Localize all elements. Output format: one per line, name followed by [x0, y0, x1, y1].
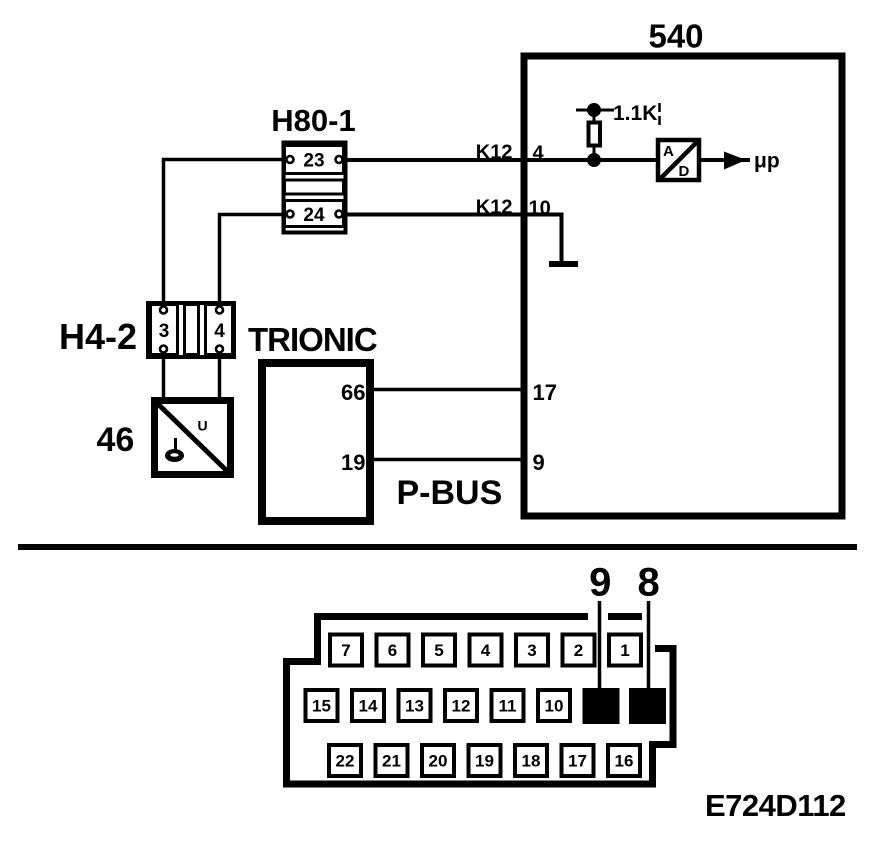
svg-text:K12: K12 [476, 197, 513, 219]
pin 10 [538, 690, 570, 721]
svg-text:H80-1: H80-1 [271, 103, 355, 138]
svg-text:9: 9 [589, 561, 611, 605]
svg-text:10: 10 [529, 198, 551, 220]
pressure sensor 46 box [155, 401, 231, 475]
pin 4 [470, 635, 502, 666]
svg-text:20: 20 [429, 752, 448, 771]
wire: TRIONIC 66 to 540 pin 17 [370, 388, 524, 392]
svg-text:P-BUS: P-BUS [397, 474, 503, 512]
pin 21 [376, 745, 408, 776]
callout digit 9 [589, 561, 611, 605]
svg-text:7: 7 [341, 641, 350, 660]
pin circle H80-1 23 right [336, 156, 343, 163]
pin circle H80-1 24 left [287, 211, 294, 218]
pin 13 [399, 690, 431, 721]
value label 1.1K [613, 102, 660, 125]
pin circle H4-2 4 bottom [216, 346, 223, 353]
svg-text:12: 12 [452, 697, 471, 716]
wire: H80-1 pin24 to 540 pin10 (K12) then down to ground [341, 215, 562, 262]
svg-text:14: 14 [359, 697, 378, 716]
pin 16 [608, 745, 640, 776]
svg-text:16: 16 [615, 752, 634, 771]
section divider line [18, 544, 857, 550]
svg-text:9: 9 [533, 450, 545, 475]
svg-text:D: D [679, 163, 690, 180]
wire: H80-1 pin23 to 540 pin4 (K12) [341, 158, 658, 162]
pin 20 [422, 745, 454, 776]
svg-text:6: 6 [388, 641, 397, 660]
svg-text:18: 18 [522, 752, 541, 771]
wire: H4-2 pin3 up to H80-1 pin23 [164, 160, 288, 306]
label H4-2 [59, 316, 137, 357]
pin 19 [469, 745, 501, 776]
pin 1 [609, 635, 641, 666]
pin 22 [329, 745, 361, 776]
svg-text:2: 2 [574, 641, 583, 660]
svg-text:μp: μp [754, 150, 780, 173]
pin circle H4-2 3 bottom [160, 346, 167, 353]
pin circle H4-2 4 top [216, 307, 223, 314]
pin 18 [515, 745, 547, 776]
svg-text:H4-2: H4-2 [59, 316, 137, 357]
ground symbol inside 540 [549, 261, 578, 267]
svg-text:U: U [198, 418, 208, 434]
pin 6 [377, 635, 409, 666]
svg-text:K12: K12 [476, 142, 513, 164]
net label P-BUS [397, 474, 503, 512]
drawing number E724D112 [705, 788, 846, 823]
resistor 1.1K pull-up [576, 110, 614, 160]
svg-text:5: 5 [434, 641, 443, 660]
pressure port symbol inside sensor 46 [165, 438, 184, 462]
pin 7 [330, 635, 362, 666]
pin circle H80-1 23 left [287, 156, 294, 163]
label 46 [97, 421, 135, 459]
svg-text:46: 46 [97, 421, 135, 459]
pin 17 [562, 745, 594, 776]
label TRIONIC [248, 321, 377, 358]
connector H80-1 [284, 143, 346, 233]
A/D converter box [658, 140, 699, 180]
connector housing outline [287, 617, 674, 785]
wire A/D output [699, 158, 750, 162]
svg-text:3: 3 [527, 641, 536, 660]
junction dot on K12 wire [587, 153, 601, 167]
pin circle H4-2 3 top [160, 307, 167, 314]
TRIONIC ECU box [262, 363, 370, 521]
svg-text:19: 19 [475, 752, 494, 771]
pin 5 [423, 635, 455, 666]
svg-text:E724D112: E724D112 [705, 788, 846, 823]
svg-text:4: 4 [533, 143, 545, 165]
wire: H4-2 pin3 down to sensor 46 [162, 353, 166, 400]
svg-text:1.1K: 1.1K [613, 102, 657, 125]
pin 15 [306, 690, 338, 721]
svg-text:TRIONIC: TRIONIC [248, 321, 377, 358]
pin 9 highlighted [583, 688, 620, 724]
arrowhead to microprocessor [724, 152, 746, 170]
svg-text:66: 66 [341, 380, 365, 405]
svg-text:10: 10 [545, 697, 564, 716]
pin circle H80-1 24 right [336, 211, 343, 218]
pin 2 [563, 635, 595, 666]
pin 8 highlighted [629, 688, 666, 724]
svg-text:21: 21 [382, 752, 401, 771]
svg-text:8: 8 [637, 561, 659, 605]
svg-text:22: 22 [336, 752, 355, 771]
wire: H4-2 pin4 up to H80-1 pin24 [220, 215, 288, 306]
leader line from 8 to pin 8 [647, 601, 651, 700]
svg-text:17: 17 [568, 752, 587, 771]
pin 12 [445, 690, 477, 721]
svg-text:1: 1 [620, 641, 629, 660]
leader line from 9 to pin 9 [598, 601, 602, 700]
svg-text:11: 11 [499, 697, 517, 716]
pin 11 [492, 690, 524, 721]
svg-text:3: 3 [159, 321, 170, 342]
svg-text:4: 4 [481, 641, 491, 660]
svg-text:23: 23 [303, 151, 324, 172]
junction dot top of resistor [587, 103, 601, 117]
pin 3 [516, 635, 548, 666]
wire: H4-2 pin4 down to sensor 46 [218, 353, 222, 400]
label H80-1 [271, 103, 355, 138]
callout digit 8 [637, 561, 659, 605]
wire: TRIONIC 19 to 540 pin 9 (P-BUS) [370, 458, 524, 462]
svg-text:17: 17 [533, 380, 557, 405]
connector H4-2 [148, 303, 234, 357]
svg-text:4: 4 [214, 321, 225, 342]
svg-text:540: 540 [648, 18, 703, 55]
ECU box 540 [524, 56, 842, 516]
svg-text:13: 13 [405, 697, 424, 716]
pin 14 [352, 690, 384, 721]
svg-text:15: 15 [312, 697, 331, 716]
svg-text:24: 24 [303, 205, 325, 226]
label 540 [648, 18, 703, 55]
svg-text:A: A [663, 143, 674, 160]
svg-text:19: 19 [341, 450, 365, 475]
